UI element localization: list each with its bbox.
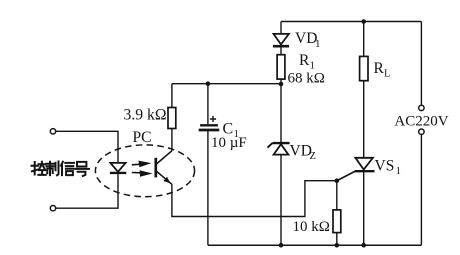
wire gate junction to 10k — [336, 181, 338, 210]
terminal AC lower — [419, 129, 424, 134]
wire 10k to bottom rail — [336, 233, 338, 246]
capacitor C1 bottom plate — [199, 129, 220, 132]
wire VD1 anode lead — [280, 22, 282, 34]
resistor 10k box — [333, 210, 341, 233]
node top rail RL junction — [361, 19, 366, 24]
optocoupler LED — [110, 163, 126, 173]
node 10k bottom rail junction — [335, 243, 340, 248]
node VDz bottom rail junction — [279, 243, 284, 248]
phototransistor emitter diagonal — [156, 171, 172, 184]
svg-text:3.9 kΩ: 3.9 kΩ — [124, 107, 167, 124]
capacitor C1 plus sign — [210, 116, 216, 122]
wire 3.9k bottom to collector — [171, 129, 173, 151]
wire 3.9k top lead — [171, 84, 173, 108]
wire C1 bottom lead — [207, 131, 209, 245]
wire mid horizontal (3.9k top to R1 bottom node) — [172, 83, 281, 85]
wire R1 to VDz — [280, 79, 282, 142]
wire LED cathode to lower terminal — [56, 173, 118, 208]
svg-text:L: L — [384, 69, 390, 80]
phototransistor collector diagonal — [156, 151, 172, 164]
wire C1 top lead — [207, 84, 209, 125]
terminal control signal upper — [50, 129, 55, 134]
svg-text:PC: PC — [133, 129, 152, 146]
wire RL to VS1 anode — [363, 81, 365, 158]
wire control upper terminal to LED — [56, 131, 118, 163]
node R1 bottom junction — [279, 82, 284, 87]
resistor 3.9k box — [168, 108, 176, 129]
optocoupler PC dashed ellipse — [95, 145, 194, 197]
wire VS1 cathode to bottom rail — [363, 171, 365, 245]
phototransistor emitter arrowhead — [163, 177, 170, 184]
capacitor C1 top plate — [200, 124, 218, 126]
svg-text:AC220V: AC220V — [394, 114, 448, 130]
label VD1 — [295, 30, 321, 50]
label RL — [374, 60, 391, 80]
zener diode VDz — [268, 143, 290, 155]
label VDz — [290, 143, 316, 163]
svg-text:VS: VS — [375, 158, 395, 175]
resistor RL box — [360, 56, 368, 80]
node VS1 bottom rail junction — [361, 243, 366, 248]
wire VS1 gate diagonal — [337, 171, 356, 181]
label C1 — [223, 121, 240, 141]
phototransistor base bar — [154, 158, 157, 178]
node C1 top junction — [206, 81, 211, 86]
svg-text:Z: Z — [310, 151, 316, 162]
svg-text:68 kΩ: 68 kΩ — [288, 71, 325, 87]
terminal control signal lower — [50, 206, 55, 211]
label VS1 — [375, 158, 402, 178]
label R1 — [299, 52, 315, 72]
terminal AC upper — [419, 105, 424, 110]
svg-text:R: R — [299, 52, 310, 69]
wire right side lower — [420, 134, 422, 245]
optocoupler light arrow upper — [132, 161, 152, 168]
svg-text:10 µF: 10 µF — [211, 135, 247, 151]
wire right side upper — [420, 22, 422, 106]
svg-text:1: 1 — [396, 165, 402, 177]
wire top rail to RL — [363, 22, 365, 57]
thyristor VS1 — [355, 158, 375, 171]
svg-text:10 kΩ: 10 kΩ — [293, 219, 330, 235]
diode VD1 — [273, 34, 289, 46]
wire VDz to bottom rail — [280, 155, 282, 246]
node gate junction — [335, 178, 340, 183]
resistor R1 box — [277, 55, 285, 79]
wire VD1 to R1 — [280, 46, 282, 55]
wire emitter to gate network — [172, 181, 337, 217]
svg-text:1: 1 — [315, 38, 321, 50]
label control signal (hand-drawn CJK strokes) — [32, 162, 90, 176]
wire top rail — [281, 21, 421, 23]
wire bottom rail — [208, 244, 422, 246]
optocoupler light arrow lower — [132, 170, 153, 176]
svg-text:R: R — [374, 60, 385, 77]
